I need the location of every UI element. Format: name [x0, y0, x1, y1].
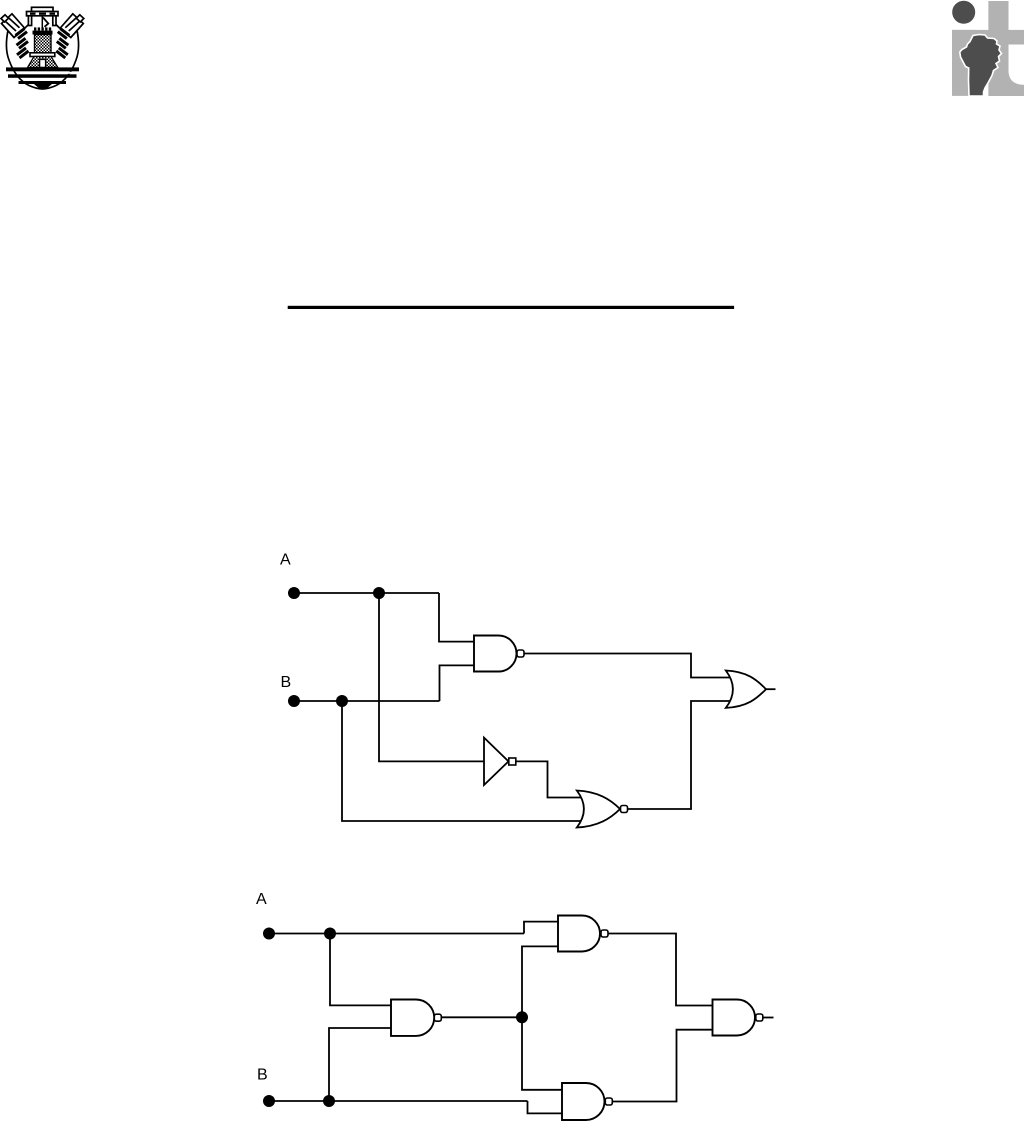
OR gate U4 (circuit 1) [726, 671, 766, 708]
input terminal A (circuit 1) [288, 587, 300, 599]
junction on A wire (circuit 2) [324, 928, 336, 940]
wire: corner up to U5 NAND top input [524, 922, 559, 934]
wire: U2 output to U3 NOR top input [516, 761, 582, 797]
wire: corner down to U1 NAND top input [439, 593, 475, 642]
wire: B junction down to U3 NOR bottom input [342, 701, 582, 821]
NOR gate U3 (circuit 1) [577, 791, 620, 828]
wire: U4 output stub [766, 688, 776, 690]
svg-text:A: A [256, 891, 267, 908]
svg-text:B: B [257, 1066, 268, 1083]
title rule [288, 306, 734, 309]
NAND U7 output bubble [605, 1098, 612, 1105]
NAND U6 output bubble [434, 1014, 441, 1021]
NOR U3 output bubble [621, 806, 628, 813]
NAND gate U8 (circuit 2 output) [713, 1000, 756, 1036]
wire: A junction down to U2 inverter input [379, 593, 484, 761]
wire: center junction down to U7 NAND top input [522, 1017, 563, 1090]
institute logo "it" (top-right) [952, 1, 1024, 96]
NAND U5 output bubble [601, 930, 608, 937]
junction on B wire (circuit 2) [323, 1095, 335, 1107]
wire: A terminal to first corner (circuit 1) [294, 592, 439, 594]
wire: U6 output to center junction [441, 1016, 522, 1018]
NAND gate U6 (circuit 2 middle) [391, 1000, 434, 1036]
wire: U8 output stub [763, 1017, 774, 1019]
svg-text:A: A [280, 552, 291, 569]
svg-text:B: B [281, 674, 292, 691]
input terminal A (circuit 2) [263, 928, 275, 940]
wire: corner up to U1 NAND bottom input [440, 665, 475, 701]
wire: corner down to U7 NAND bottom input [528, 1101, 563, 1113]
junction on A wire (circuit 1) [373, 587, 385, 599]
wire: B junction up to U6 NAND bottom input [329, 1028, 392, 1101]
wire: center junction up to U5 NAND bottom input [522, 946, 559, 1017]
junction on B wire (circuit 1) [336, 695, 348, 707]
wire: B terminal to corner (circuit 2) [269, 1100, 528, 1102]
wire: U1 output to U4 OR top input [524, 654, 731, 678]
center junction (circuit 2) [516, 1011, 528, 1023]
crest logo (top-left letterhead emblem) [1, 7, 84, 89]
NAND gate U5 (circuit 2 top) [558, 916, 600, 952]
NAND U1 output bubble [517, 650, 524, 657]
inverter U2 (circuit 1) [484, 738, 509, 785]
wire: A terminal to corner (circuit 2) [269, 933, 524, 935]
NAND gate U1 (circuit 1) [474, 636, 517, 672]
input terminal B (circuit 2) [263, 1095, 275, 1107]
NAND gate U7 (circuit 2 bottom) [562, 1083, 605, 1120]
input terminal B (circuit 1) [288, 695, 300, 707]
NAND U8 output bubble [756, 1014, 763, 1021]
inverter U2 output bubble [509, 758, 516, 765]
wire: B terminal to corner (circuit 1) [294, 700, 440, 702]
wire: U5 output to U8 NAND top input [608, 934, 713, 1006]
wire: A junction down to U6 NAND top input [330, 934, 392, 1006]
wire: U3 output to U4 OR bottom input [628, 701, 732, 809]
wire: U7 output to U8 NAND bottom input [612, 1030, 713, 1102]
